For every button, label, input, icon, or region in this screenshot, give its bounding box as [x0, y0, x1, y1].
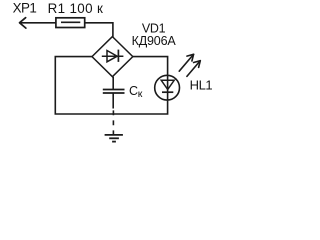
wire bridge right to LED top	[133, 57, 168, 75]
diode bridge VD1 diamond	[92, 37, 133, 77]
capacitor Ck plates	[103, 90, 125, 94]
diode symbol inside bridge	[102, 50, 124, 62]
svg-text:КД906А: КД906А	[132, 34, 177, 48]
svg-text:XP1: XP1	[13, 0, 37, 15]
connector XP1 probe arrow	[20, 18, 56, 28]
svg-text:C: C	[129, 84, 138, 98]
dashed line to ground	[112, 110, 114, 134]
LED HL1 circle	[155, 75, 180, 100]
LED emission arrow 1	[179, 54, 193, 71]
svg-text:HL1: HL1	[190, 78, 213, 93]
LED lead through circle	[167, 75, 169, 101]
wire resistor to bridge top	[85, 23, 113, 37]
svg-text:к: к	[138, 88, 143, 100]
wire bridge left, down and bottom rail to LED bottom	[55, 57, 167, 114]
LED cathode bar	[162, 91, 173, 93]
LED triangle	[161, 80, 174, 89]
resistor R1	[56, 18, 85, 28]
ground symbol	[105, 135, 123, 142]
wire capacitor to bottom rail	[112, 93, 114, 109]
LED emission arrow 2	[187, 61, 200, 77]
svg-text:R1 100 к: R1 100 к	[48, 1, 104, 16]
wire bridge bottom to capacitor	[112, 77, 114, 90]
